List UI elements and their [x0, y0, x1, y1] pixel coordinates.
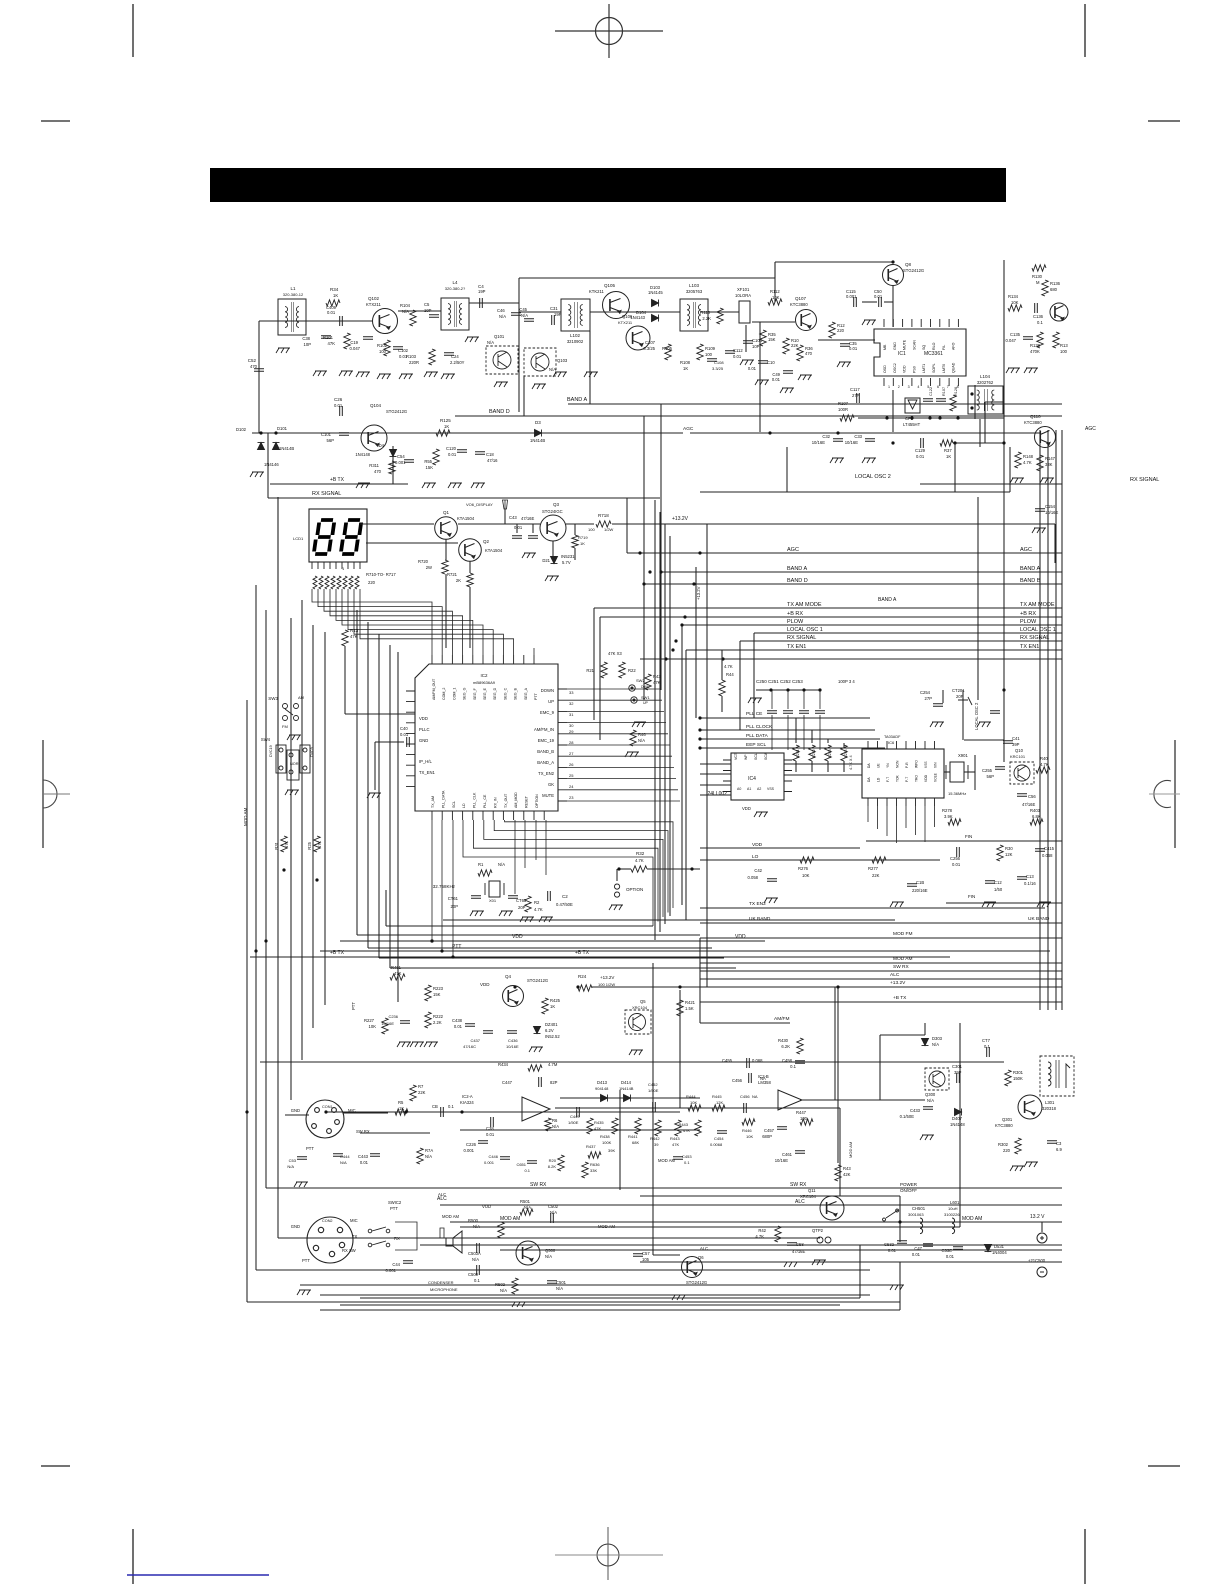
svg-text:N/A: N/A	[545, 1254, 552, 1259]
ground	[470, 911, 484, 916]
svg-text:R147: R147	[1045, 456, 1056, 461]
svg-text:1N4148: 1N4148	[355, 452, 370, 457]
svg-text:R278: R278	[942, 808, 953, 813]
resistor R721	[467, 573, 473, 587]
ground	[356, 372, 370, 377]
svg-text:Q8: Q8	[905, 262, 912, 267]
svg-text:R13: R13	[1060, 343, 1068, 348]
svg-text:Q4: Q4	[505, 974, 512, 979]
svg-text:R425: R425	[550, 998, 561, 1003]
wire bus	[255, 585, 257, 1270]
wire	[375, 741, 404, 743]
svg-text:R24: R24	[578, 974, 587, 979]
svg-text:VDD: VDD	[512, 934, 523, 940]
wire	[360, 1297, 860, 1299]
svg-text:LD: LD	[462, 803, 466, 808]
svg-text:L4: L4	[452, 280, 458, 285]
junction	[1002, 441, 1005, 444]
resistor R46	[630, 730, 636, 746]
svg-text:6.2K: 6.2K	[781, 1044, 790, 1049]
svg-text:C301: C301	[952, 1064, 963, 1069]
svg-text:R107: R107	[838, 401, 849, 406]
wire bus	[320, 1294, 870, 1296]
ground	[529, 1047, 543, 1052]
wire	[592, 986, 1062, 988]
svg-text:RX SIGNAL: RX SIGNAL	[1020, 635, 1049, 641]
svg-text:VDD: VDD	[419, 716, 428, 721]
wire	[827, 739, 829, 743]
svg-text:AFO: AFO	[952, 342, 956, 350]
net SW RX wire	[430, 1187, 1062, 1189]
svg-text:D4: D4	[379, 443, 385, 448]
svg-text:DA: DA	[867, 763, 871, 768]
svg-text:R20: R20	[549, 1158, 557, 1163]
capacitor C135	[1023, 337, 1033, 340]
svg-text:N/A: N/A	[521, 313, 528, 318]
svg-text:0.01: 0.01	[912, 1252, 921, 1257]
svg-text:LOCAL OSC 1: LOCAL OSC 1	[1020, 627, 1056, 633]
svg-text:MOD FM: MOD FM	[893, 931, 912, 937]
svg-text:R125: R125	[440, 418, 451, 423]
ground	[424, 372, 438, 377]
wire	[759, 322, 761, 432]
net PLOW wire	[682, 624, 1062, 626]
svg-text:N/A: N/A	[638, 738, 645, 743]
resistor R125	[436, 430, 450, 436]
svg-text:C500: C500	[468, 1272, 479, 1277]
wire bus	[397, 652, 399, 1002]
transformer L1	[278, 299, 306, 335]
svg-text:3001063: 3001063	[908, 1212, 924, 1217]
svg-text:R227: R227	[364, 1018, 375, 1023]
wire	[752, 321, 795, 323]
diode D407	[955, 1109, 962, 1116]
svg-text:220R: 220R	[409, 360, 419, 365]
svg-text:R37: R37	[944, 448, 952, 453]
ground	[520, 917, 534, 922]
svg-text:R7A: R7A	[425, 1148, 433, 1153]
capacitor C18	[475, 452, 485, 455]
ground	[977, 722, 991, 727]
svg-text:C256: C256	[950, 856, 961, 861]
svg-text:1N4143: 1N4143	[630, 315, 645, 320]
svg-text:SW3: SW3	[268, 696, 278, 701]
wire	[695, 567, 697, 718]
resistor R31	[281, 836, 287, 852]
svg-text:10P: 10P	[424, 308, 432, 313]
diode D104	[652, 315, 659, 322]
net PTT wire	[320, 950, 1050, 952]
wire	[811, 730, 813, 743]
svg-text:1K: 1K	[333, 293, 338, 298]
svg-text:8.2K: 8.2K	[548, 1164, 557, 1169]
svg-text:0.01: 0.01	[360, 1160, 369, 1165]
svg-text:1N4146: 1N4146	[264, 462, 279, 467]
crop mark top-right horizontal	[1148, 120, 1180, 122]
svg-text:6.2V: 6.2V	[545, 1028, 554, 1033]
svg-text:AGC: AGC	[1085, 426, 1096, 432]
svg-text:1K: 1K	[946, 454, 951, 459]
resistor R7A	[417, 1148, 423, 1164]
svg-text:MOD AM: MOD AM	[893, 956, 912, 962]
svg-text:29: 29	[569, 729, 574, 734]
wire	[985, 401, 1004, 403]
wire	[357, 934, 700, 936]
wire	[519, 311, 561, 313]
svg-text:CH501: CH501	[912, 1206, 926, 1211]
svg-text:20P: 20P	[451, 904, 459, 909]
resistor R278	[948, 819, 961, 825]
resistor R24	[578, 985, 592, 991]
svg-text:IC2: IC2	[480, 673, 488, 678]
svg-text:R25: R25	[307, 841, 312, 849]
switch SW2	[629, 685, 635, 691]
svg-text:100: 100	[379, 349, 387, 354]
svg-text:C10: C10	[767, 360, 775, 365]
svg-text:1K: 1K	[683, 366, 688, 371]
junction	[721, 657, 724, 660]
transistor Q8 STG2412G	[883, 265, 904, 286]
ground	[471, 483, 485, 488]
svg-text:R104: R104	[400, 303, 411, 308]
net ALC wire	[440, 1204, 1062, 1206]
svg-text:C502: C502	[548, 1204, 559, 1209]
svg-text:PTT: PTT	[390, 1206, 398, 1211]
ground	[356, 483, 370, 488]
transistor Q4 STG2412G	[503, 986, 524, 1007]
svg-text:TX EN2: TX EN2	[749, 901, 766, 907]
resistor R36	[797, 345, 803, 361]
svg-text:QTP2: QTP2	[812, 1228, 824, 1233]
svg-text:N/A: N/A	[425, 1154, 432, 1159]
svg-text:R276: R276	[798, 866, 809, 871]
resistor R447	[800, 1119, 813, 1125]
wire	[974, 755, 976, 790]
svg-text:C52: C52	[248, 358, 257, 363]
wire	[690, 432, 1040, 434]
capacitor C129	[921, 438, 924, 448]
ground	[890, 902, 904, 907]
resistor R443	[675, 1120, 681, 1136]
svg-text:C461: C461	[782, 1152, 793, 1157]
ground	[532, 384, 546, 389]
wire	[398, 310, 441, 312]
svg-text:R46: R46	[638, 732, 646, 737]
svg-text:UE: UE	[877, 763, 881, 768]
wire	[1003, 740, 1005, 762]
junction	[938, 416, 941, 419]
svg-text:47/16E: 47/16E	[521, 516, 534, 521]
svg-text:220: 220	[368, 580, 376, 585]
svg-text:IC4: IC4	[748, 776, 756, 782]
svg-text:C457: C457	[764, 1128, 775, 1133]
svg-text:R443: R443	[678, 1122, 688, 1127]
ground	[740, 360, 754, 365]
svg-text:DZ401: DZ401	[545, 1022, 558, 1027]
junction	[698, 551, 701, 554]
IC6 top pins	[868, 741, 935, 749]
svg-text:AM/FM_IN: AM/FM_IN	[534, 727, 554, 732]
svg-text:A2: A2	[757, 787, 761, 791]
resistor R716 array	[349, 576, 353, 589]
junction	[513, 985, 516, 988]
resistor R276b	[800, 857, 814, 863]
junction	[440, 949, 443, 952]
svg-text:0.01: 0.01	[952, 862, 961, 867]
svg-text:+B RX: +B RX	[787, 611, 803, 617]
svg-text:AGC: AGC	[683, 426, 694, 432]
svg-text:N/A: N/A	[340, 1160, 347, 1165]
junction	[678, 985, 681, 988]
svg-text:+13.2V: +13.2V	[672, 516, 689, 522]
svg-text:R34: R34	[330, 287, 339, 292]
svg-text:SCL: SCL	[452, 801, 456, 808]
switch SW4	[276, 745, 310, 780]
diode DZ401 zener	[534, 1027, 541, 1034]
resistor R712 array	[325, 576, 329, 589]
svg-text:R148: R148	[1023, 454, 1034, 459]
svg-text:N/A: N/A	[932, 1042, 939, 1047]
svg-text:R719: R719	[578, 535, 588, 540]
svg-text:R107: R107	[942, 387, 946, 396]
svg-text:SEG_A: SEG_A	[524, 687, 528, 700]
svg-text:D101: D101	[277, 426, 288, 431]
capacitor C446	[500, 1157, 510, 1160]
svg-text:Q10: Q10	[1015, 748, 1024, 753]
svg-text:R31: R31	[274, 841, 279, 849]
svg-text:47K: 47K	[394, 971, 402, 976]
svg-text:12K: 12K	[1005, 852, 1013, 857]
svg-text:N/A: N/A	[500, 1288, 507, 1293]
capacitor C120	[457, 450, 467, 453]
resistor R12	[829, 322, 835, 338]
svg-text:220/16E: 220/16E	[912, 888, 928, 893]
svg-text:MOD AM: MOD AM	[962, 1216, 982, 1222]
wire bus	[1047, 430, 1049, 1010]
svg-text:MOD AM: MOD AM	[442, 1214, 459, 1219]
resistor R37	[940, 440, 953, 446]
terminal plus	[1037, 1233, 1047, 1243]
capacitor C30x	[1047, 1141, 1057, 1144]
diode D102	[258, 443, 265, 450]
resistor R277	[872, 857, 886, 863]
resistor R446	[742, 1119, 755, 1125]
capacitor C456	[744, 1103, 747, 1113]
seven-segment digit 8 (tens)	[314, 520, 335, 554]
EEPROM IC4	[731, 753, 784, 800]
capacitor C26	[340, 406, 343, 416]
svg-text:2W: 2W	[426, 565, 432, 570]
capacitor C38b	[491, 1117, 494, 1127]
svg-text:4: 4	[917, 385, 919, 389]
svg-text:QUAD: QUAD	[952, 362, 956, 373]
svg-text:LO: LO	[752, 854, 759, 860]
svg-text:MICROPHONE: MICROPHONE	[430, 1287, 458, 1292]
svg-text:0.01: 0.01	[748, 366, 757, 371]
svg-text:R22: R22	[628, 668, 636, 673]
junction	[642, 582, 645, 585]
svg-text:X901: X901	[958, 753, 968, 758]
wire	[560, 1097, 700, 1099]
wire	[700, 784, 731, 786]
capacitor C136	[1035, 303, 1038, 313]
ground	[982, 902, 996, 907]
svg-text:0.01: 0.01	[733, 354, 742, 359]
wire bus	[312, 625, 314, 1028]
wire	[390, 967, 736, 969]
transistor Q104 STG2412G	[361, 425, 387, 451]
junction	[1002, 688, 1005, 691]
svg-text:3205763: 3205763	[686, 289, 703, 294]
svg-text:220: 220	[1003, 1148, 1011, 1153]
diode D414	[624, 1095, 631, 1102]
svg-text:WPO: WPO	[915, 760, 919, 768]
diode D4	[390, 450, 397, 457]
op-amp IC2-A KIA324	[522, 1097, 550, 1121]
svg-text:KTA1504: KTA1504	[457, 516, 475, 521]
ground	[837, 362, 851, 367]
junction	[460, 1110, 463, 1113]
wire	[445, 574, 447, 648]
svg-text:RESET: RESET	[525, 795, 529, 808]
wire bus	[654, 500, 656, 940]
svg-text:Q105: Q105	[604, 283, 616, 288]
resistor R44	[719, 680, 725, 696]
blue scan artifact line	[127, 1574, 269, 1576]
junction	[680, 623, 683, 626]
svg-text:FIL: FIL	[942, 345, 946, 350]
wire	[660, 404, 662, 690]
resistor R25	[314, 836, 320, 852]
resistor R43	[645, 674, 651, 690]
svg-text:YN: YN	[886, 763, 890, 768]
svg-text:R274: R274	[844, 749, 848, 758]
svg-text:100 1/2W: 100 1/2W	[598, 982, 615, 987]
diode D531	[985, 1245, 992, 1252]
microcontroller IC2	[415, 664, 558, 811]
transistor Q2 KTA1504	[459, 539, 482, 562]
resistor R130	[1032, 265, 1046, 271]
svg-text:220: 220	[837, 328, 845, 333]
capacitor C41	[1003, 741, 1013, 744]
net LOCAL OSC 1 wire	[754, 632, 1062, 634]
svg-text:RLO: RLO	[932, 342, 936, 350]
svg-text:R7: R7	[418, 1084, 424, 1089]
svg-text:28: 28	[569, 740, 574, 745]
svg-text:DA: DA	[867, 777, 871, 782]
capacitor C252	[799, 711, 809, 714]
svg-text:UP: UP	[548, 699, 554, 704]
svg-text:R21: R21	[586, 668, 594, 673]
svg-text:10K: 10K	[772, 295, 780, 300]
crystal X01	[489, 881, 500, 897]
svg-text:R113: R113	[700, 310, 710, 315]
svg-text:6: 6	[937, 385, 939, 389]
wire	[469, 587, 471, 648]
svg-text:D413: D413	[597, 1080, 608, 1085]
wire	[343, 1112, 388, 1114]
svg-text:FIN: FIN	[968, 894, 975, 899]
svg-text:MOD AM: MOD AM	[243, 807, 248, 826]
junction	[617, 867, 620, 870]
ground	[1032, 528, 1046, 533]
wire bus	[265, 610, 267, 1188]
svg-text:0.1/50E: 0.1/50E	[900, 1114, 915, 1119]
capacitor C31	[552, 315, 555, 325]
wire	[700, 794, 731, 796]
junction	[802, 688, 805, 691]
transistor Q110 KTC3880	[1035, 427, 1056, 448]
wire	[745, 325, 747, 352]
display pins	[312, 562, 360, 569]
svg-text:KTK211: KTK211	[589, 289, 604, 294]
svg-text:47K X3: 47K X3	[608, 651, 622, 656]
test point QTP2	[817, 1237, 831, 1243]
ground	[339, 371, 353, 376]
svg-text:N/A: N/A	[552, 1124, 559, 1129]
svg-text:N/A: N/A	[499, 314, 506, 319]
svg-text:R109: R109	[705, 346, 716, 351]
capacitor C10	[758, 361, 768, 364]
svg-text:Q104: Q104	[370, 403, 382, 408]
wire	[555, 1107, 840, 1109]
svg-text:C38: C38	[302, 336, 310, 341]
capacitor C44b	[528, 536, 538, 539]
net RX SIGNAL wire right	[920, 483, 1062, 485]
junction	[898, 1220, 901, 1223]
diode D101	[273, 443, 280, 450]
svg-text:C458: C458	[782, 1058, 793, 1063]
PLL IC6	[862, 749, 944, 798]
registration mark left	[43, 740, 70, 848]
svg-text:4.7K X 4: 4.7K X 4	[849, 755, 853, 770]
svg-text:30: 30	[569, 723, 574, 728]
svg-text:CON1: CON1	[322, 1105, 333, 1109]
resistor R22	[619, 662, 625, 678]
svg-text:0.1: 0.1	[984, 1044, 990, 1049]
wire bus	[378, 634, 380, 958]
wire	[700, 859, 940, 861]
svg-text:0.01: 0.01	[334, 403, 343, 408]
wire AGC row	[252, 432, 683, 434]
net TX EN1 wire	[686, 649, 1062, 651]
resistor R500	[498, 1222, 504, 1238]
wire	[469, 302, 519, 304]
svg-text:D303: D303	[932, 1036, 943, 1041]
resistor R435	[587, 1118, 593, 1134]
svg-text:CT7: CT7	[982, 1038, 991, 1043]
svg-text:C101: C101	[321, 432, 332, 437]
svg-text:BAND_A: BAND_A	[537, 760, 554, 765]
capacitor C40	[407, 737, 410, 747]
capacitor C453	[673, 1157, 683, 1160]
capacitor C254	[933, 704, 943, 707]
wire	[647, 868, 700, 870]
wire	[640, 1195, 900, 1197]
svg-text:R108: R108	[680, 360, 691, 365]
svg-text:C117: C117	[850, 387, 860, 392]
svg-text:C102: C102	[398, 348, 409, 353]
junction	[956, 416, 959, 419]
wire	[345, 1237, 490, 1239]
svg-text:N/A: N/A	[287, 1164, 294, 1169]
wire	[445, 539, 447, 560]
ground	[250, 472, 264, 477]
transistor Q106 KTX211	[626, 326, 650, 350]
resistor R103	[429, 349, 435, 365]
wire top rail	[519, 277, 775, 279]
junction	[274, 431, 277, 434]
